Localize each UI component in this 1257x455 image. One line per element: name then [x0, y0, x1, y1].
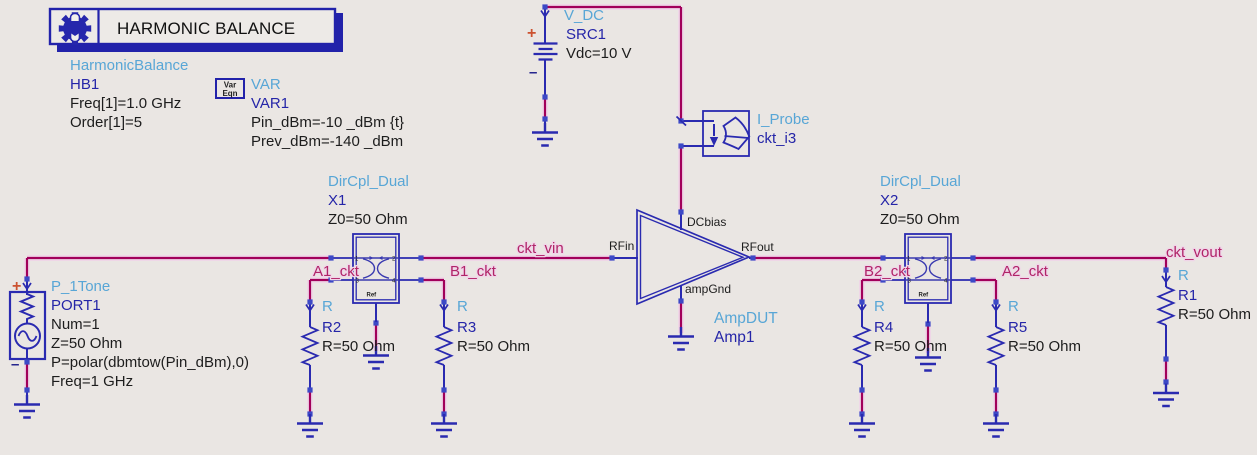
svg-text:–: – [529, 64, 537, 81]
svg-text:R: R [1178, 267, 1189, 284]
svg-text:ckt_i3: ckt_i3 [757, 130, 796, 147]
svg-text:R2: R2 [322, 319, 341, 336]
svg-text:V_DC: V_DC [564, 7, 604, 24]
svg-text:Prev_dBm=-140 _dBm: Prev_dBm=-140 _dBm [251, 133, 403, 150]
svg-text:ckt_vout: ckt_vout [1166, 244, 1223, 261]
svg-text:R: R [457, 298, 468, 315]
svg-text:Z=50 Ohm: Z=50 Ohm [51, 335, 122, 352]
svg-text:Z0=50 Ohm: Z0=50 Ohm [328, 211, 408, 228]
svg-text:ckt_vin: ckt_vin [517, 240, 564, 257]
svg-text:A1_ckt: A1_ckt [313, 263, 360, 280]
svg-text:R: R [1008, 298, 1019, 315]
svg-text:SRC1: SRC1 [566, 26, 606, 43]
svg-text:R=50 Ohm: R=50 Ohm [457, 338, 530, 355]
svg-text:Freq=1 GHz: Freq=1 GHz [51, 373, 133, 390]
svg-text:P=polar(dbmtow(Pin_dBm),0): P=polar(dbmtow(Pin_dBm),0) [51, 354, 249, 371]
svg-text:DCbias: DCbias [687, 215, 726, 229]
svg-text:R1: R1 [1178, 287, 1197, 304]
svg-text:R: R [322, 298, 333, 315]
svg-text:R=50 Ohm: R=50 Ohm [874, 338, 947, 355]
svg-text:Vdc=10 V: Vdc=10 V [566, 45, 631, 62]
svg-text:PORT1: PORT1 [51, 297, 101, 314]
svg-text:RFout: RFout [741, 240, 774, 254]
svg-text:Pin_dBm=-10 _dBm {t}: Pin_dBm=-10 _dBm {t} [251, 114, 404, 131]
svg-text:DirCpl_Dual: DirCpl_Dual [328, 173, 409, 190]
svg-text:HarmonicBalance: HarmonicBalance [70, 57, 188, 74]
svg-text:R3: R3 [457, 319, 476, 336]
svg-text:Num=1: Num=1 [51, 316, 100, 333]
svg-text:R4: R4 [874, 319, 893, 336]
svg-text:+: + [12, 278, 21, 295]
svg-text:R=50 Ohm: R=50 Ohm [1008, 338, 1081, 355]
svg-text:HARMONIC BALANCE: HARMONIC BALANCE [117, 19, 295, 38]
svg-text:B1_ckt: B1_ckt [450, 263, 497, 280]
svg-text:B2_ckt: B2_ckt [864, 263, 911, 280]
svg-text:Amp1: Amp1 [714, 329, 755, 346]
svg-text:HB1: HB1 [70, 76, 99, 93]
svg-text:X1: X1 [328, 192, 346, 209]
svg-text:I_Probe: I_Probe [757, 111, 810, 128]
svg-text:R5: R5 [1008, 319, 1027, 336]
svg-text:DirCpl_Dual: DirCpl_Dual [880, 173, 961, 190]
svg-text:Eqn: Eqn [222, 89, 237, 98]
svg-text:P_1Tone: P_1Tone [51, 278, 110, 295]
svg-text:Order[1]=5: Order[1]=5 [70, 114, 142, 131]
svg-text:VAR1: VAR1 [251, 95, 289, 112]
svg-text:A2_ckt: A2_ckt [1002, 263, 1049, 280]
svg-text:ampGnd: ampGnd [685, 282, 731, 296]
svg-text:Freq[1]=1.0 GHz: Freq[1]=1.0 GHz [70, 95, 181, 112]
svg-text:–: – [11, 356, 19, 373]
svg-text:Z0=50 Ohm: Z0=50 Ohm [880, 211, 960, 228]
svg-text:AmpDUT: AmpDUT [714, 310, 778, 327]
svg-text:VAR: VAR [251, 76, 281, 93]
svg-text:R=50 Ohm: R=50 Ohm [322, 338, 395, 355]
svg-text:X2: X2 [880, 192, 898, 209]
svg-text:R: R [874, 298, 885, 315]
svg-text:+: + [527, 25, 536, 42]
svg-text:RFin: RFin [609, 239, 634, 253]
svg-text:R=50 Ohm: R=50 Ohm [1178, 306, 1251, 323]
